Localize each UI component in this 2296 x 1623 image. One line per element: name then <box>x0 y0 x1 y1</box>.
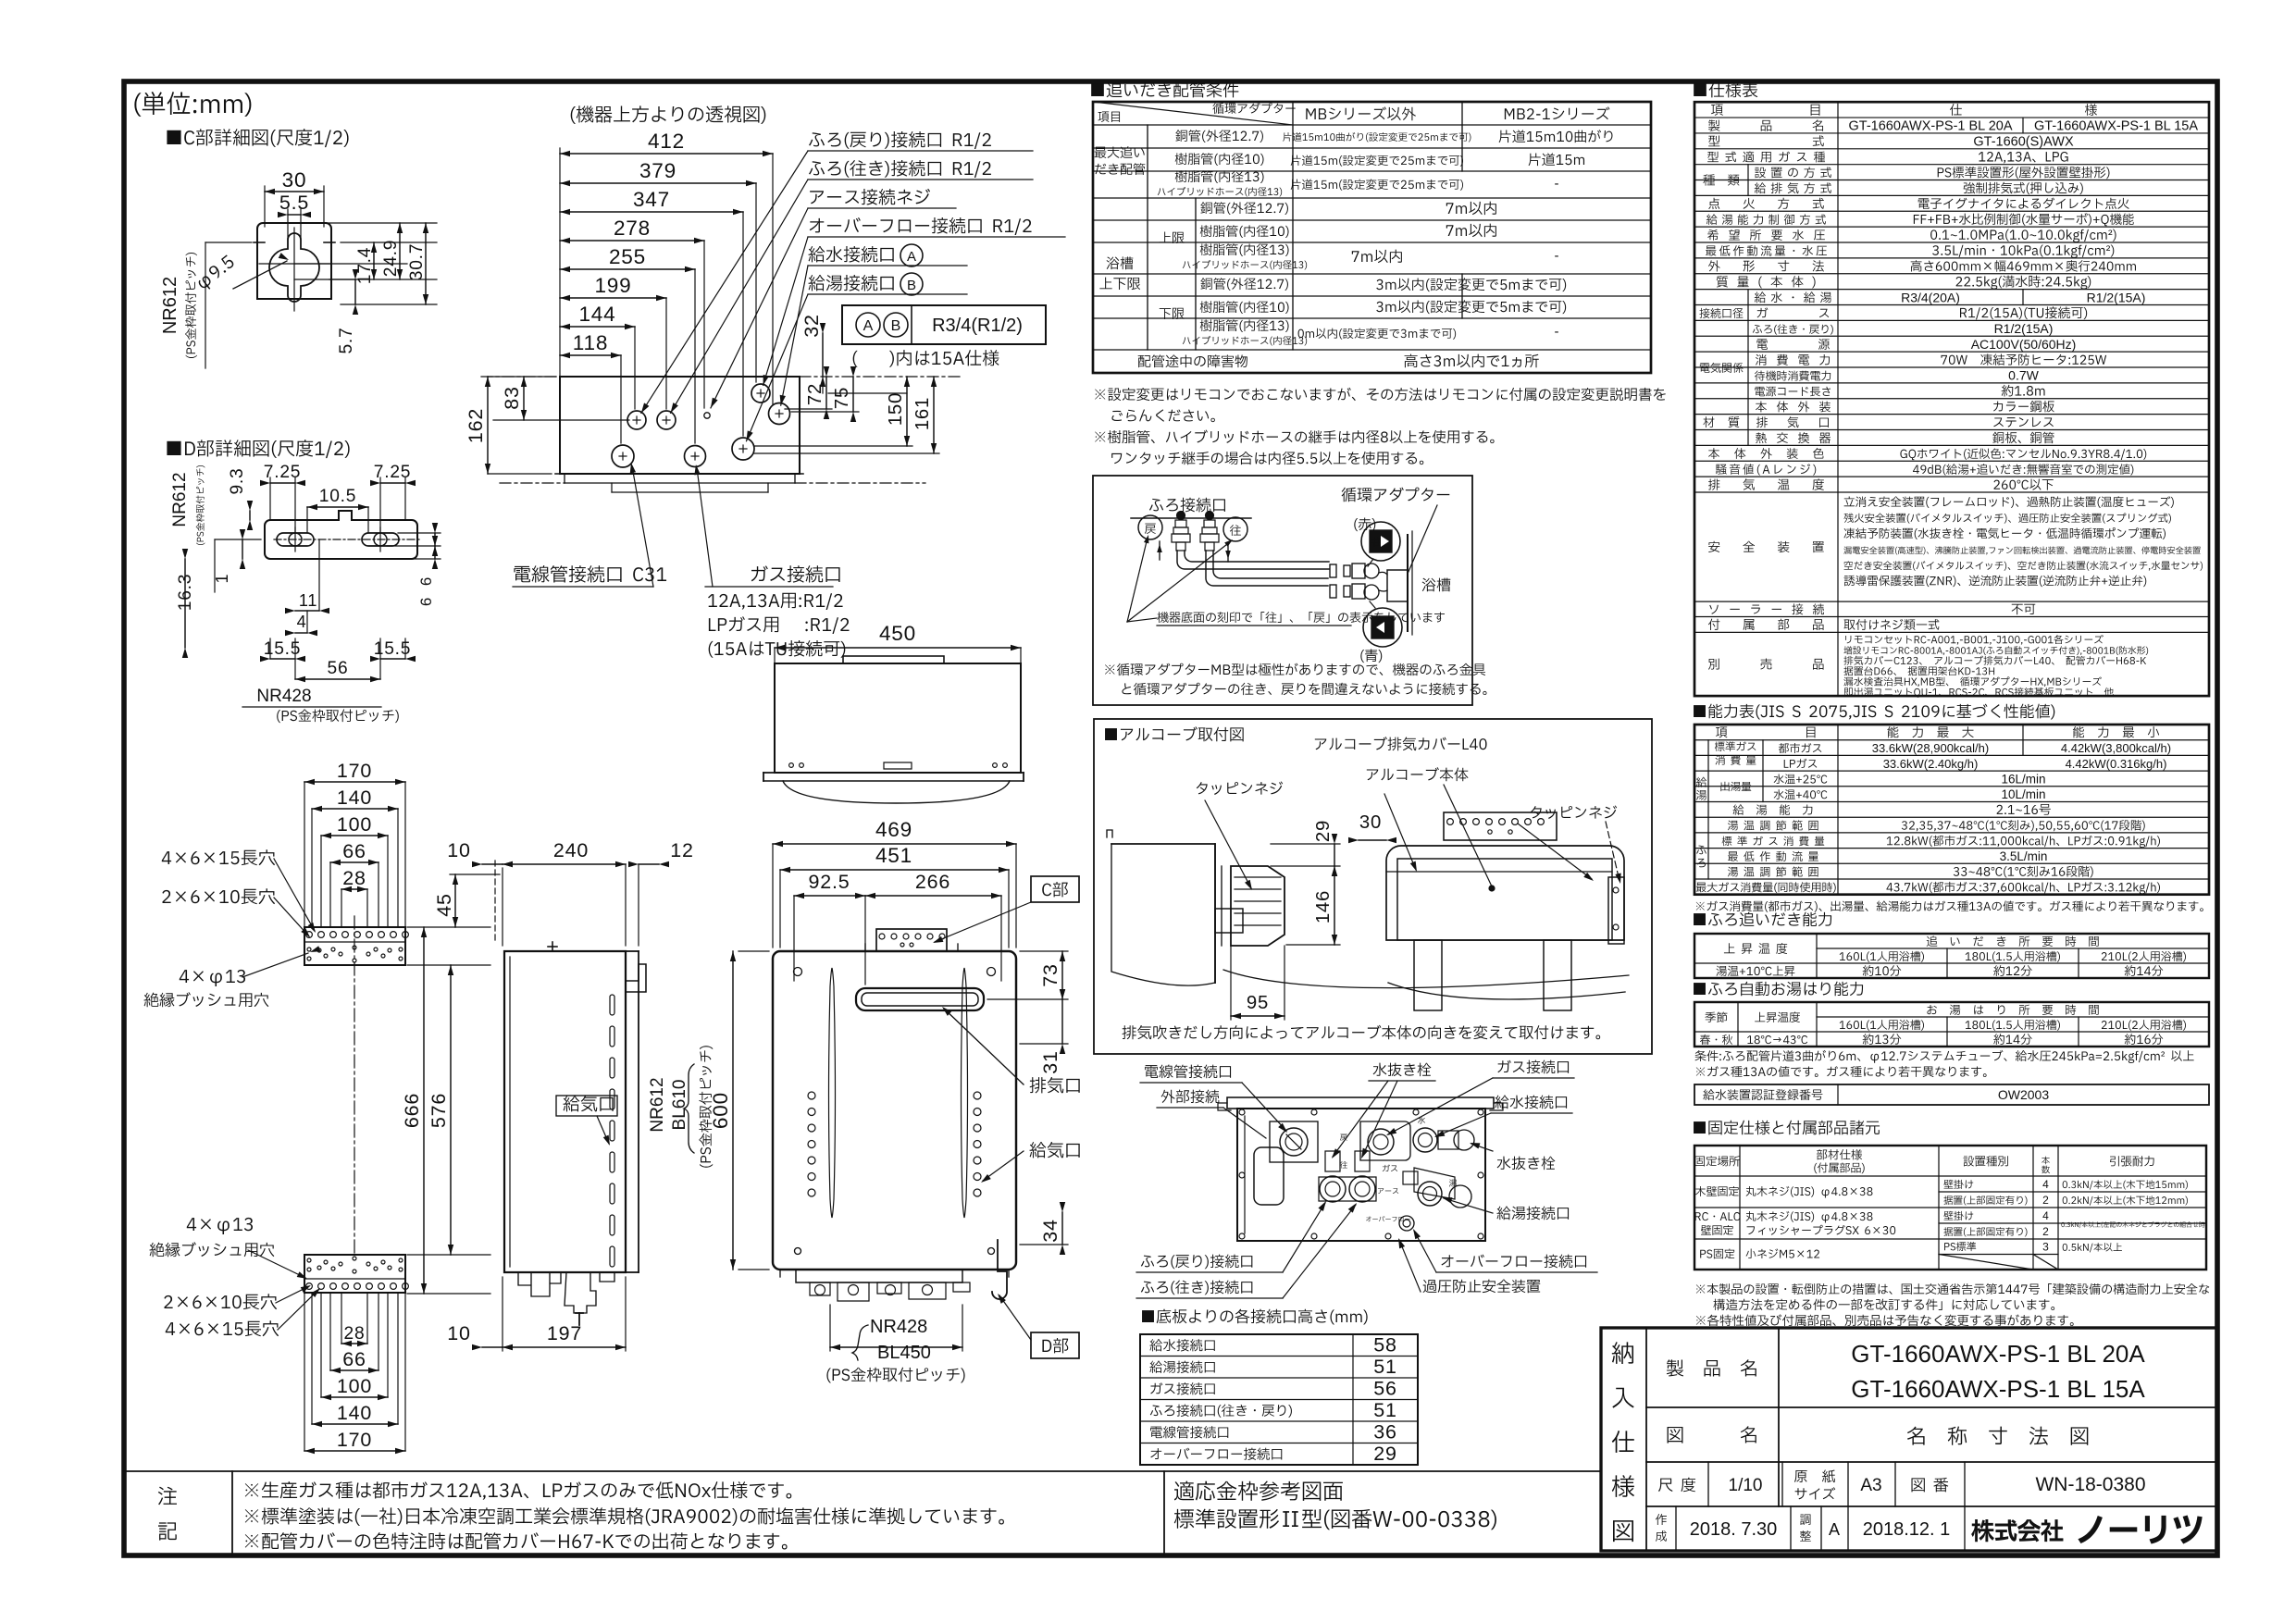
alcove figure box <box>1094 719 1652 1054</box>
spec table header <box>1711 105 1819 116</box>
front view curved highlights <box>829 968 836 1218</box>
svg-text:5.7: 5.7 <box>337 327 356 353</box>
front view air inlet label <box>1029 1142 1079 1158</box>
svg-text:4: 4 <box>297 613 307 631</box>
svg-text:2018. 7.30: 2018. 7.30 <box>1690 1519 1778 1540</box>
svg-text:33.6kW(28,900kcal/h): 33.6kW(28,900kcal/h) <box>1872 741 1989 755</box>
perspective connection holes <box>627 411 646 429</box>
svg-text:72: 72 <box>805 383 825 405</box>
svg-text:B: B <box>907 278 916 293</box>
front view exhaust slot <box>856 988 984 1010</box>
svg-text:170: 170 <box>337 1429 372 1451</box>
svg-text:51: 51 <box>1373 1356 1396 1378</box>
svg-text:GT-1660AWX-PS-1 BL 15A: GT-1660AWX-PS-1 BL 15A <box>2034 119 2198 134</box>
reference frame drawing note <box>1174 1481 1343 1501</box>
svg-text:9.3: 9.3 <box>228 467 247 494</box>
svg-text:NR612: NR612 <box>648 1077 667 1132</box>
svg-text:34: 34 <box>1039 1219 1061 1242</box>
center axis <box>354 916 355 1255</box>
svg-text:73: 73 <box>1039 963 1061 986</box>
svg-text:24.9: 24.9 <box>381 240 401 278</box>
svg-text:A3: A3 <box>1860 1476 1881 1495</box>
svg-text:NR428: NR428 <box>870 1317 927 1337</box>
svg-text:GT-1660(S)AWX: GT-1660(S)AWX <box>1973 135 2074 150</box>
svg-text:2: 2 <box>2042 1194 2049 1207</box>
circulation adapter figure box <box>1093 476 1472 705</box>
front view D-part label <box>1031 1332 1079 1358</box>
svg-text:2: 2 <box>2042 1225 2049 1238</box>
alcove bracket plate <box>1444 812 1557 840</box>
piping table row labels <box>1095 146 1145 158</box>
side view bracket tab <box>626 964 646 992</box>
title block date row <box>1675 1506 1677 1551</box>
spec rows <box>1708 119 1823 130</box>
lower plate labels <box>187 1218 253 1234</box>
piping table notes <box>1095 388 1666 401</box>
svg-text:3.5L/min: 3.5L/min <box>2000 849 2048 863</box>
alcove right body <box>1359 839 1386 841</box>
svg-text:10: 10 <box>447 1322 470 1344</box>
svg-text:GT-1660AWX-PS-1 BL 20A: GT-1660AWX-PS-1 BL 20A <box>1851 1340 2145 1368</box>
lower mounting plate <box>304 1255 405 1293</box>
reheat table grid <box>1694 934 2209 978</box>
svg-text:NR612: NR612 <box>160 277 180 334</box>
perspective bottom labels <box>514 565 666 583</box>
svg-text:66: 66 <box>342 1348 366 1370</box>
svg-text:144: 144 <box>578 303 615 326</box>
svg-text:2018.12. 1: 2018.12. 1 <box>1863 1519 1951 1540</box>
svg-text:450: 450 <box>879 622 916 645</box>
bottom view labels bottom-left <box>1141 1254 1252 1269</box>
bottom view small texts <box>1340 1134 1347 1140</box>
front view vent holes <box>808 1092 815 1099</box>
side view bottom dims <box>503 1346 626 1348</box>
svg-text:255: 255 <box>609 245 646 268</box>
alcove legs <box>1414 940 1442 1010</box>
svg-text:-: - <box>1555 248 1559 264</box>
title block scale row <box>1707 1462 1709 1506</box>
svg-text:17.4: 17.4 <box>355 247 375 285</box>
circulation adapter leader <box>1408 505 1437 574</box>
svg-text:30: 30 <box>282 168 307 192</box>
capacity table grid <box>1694 725 2209 895</box>
bottom view screws on body <box>1239 1109 1245 1115</box>
piping table diagonal header <box>1093 102 1293 125</box>
svg-text:379: 379 <box>639 159 676 182</box>
svg-text:666: 666 <box>401 1093 423 1128</box>
svg-text:10.5: 10.5 <box>319 487 357 506</box>
side view air inlet label <box>563 1096 613 1111</box>
fixing rows <box>1695 1186 1739 1196</box>
small top view <box>775 647 1021 649</box>
auto fill notes <box>1695 1050 2194 1063</box>
bottom view labels top <box>1373 1063 1432 1077</box>
detail view D title <box>167 440 349 458</box>
svg-text:140: 140 <box>337 1402 372 1424</box>
A B note box <box>842 305 1046 344</box>
svg-text:GT-1660AWX-PS-1 BL 20A: GT-1660AWX-PS-1 BL 20A <box>1848 119 2012 134</box>
connection heights table title <box>1142 1309 1368 1325</box>
svg-text:R3/4(R1/2): R3/4(R1/2) <box>932 316 1023 336</box>
perspective left dims <box>487 377 489 474</box>
svg-text:A: A <box>863 318 874 334</box>
piping conditions table title <box>1091 82 1238 98</box>
svg-text:R1/2(15A): R1/2(15A) <box>1994 321 2054 336</box>
perspective body <box>560 377 800 474</box>
circulation bath wall <box>1407 535 1409 631</box>
notes box <box>124 1470 1601 1472</box>
svg-text:451: 451 <box>875 844 912 867</box>
side view body <box>504 951 626 1272</box>
svg-text:30: 30 <box>1359 812 1382 833</box>
spec accessory row <box>1708 619 1824 630</box>
circulation red icon <box>1361 522 1400 561</box>
alcove caption <box>1123 1025 1601 1040</box>
circulation fitting rail <box>1131 517 1251 519</box>
svg-text:4: 4 <box>2042 1178 2049 1191</box>
upper plate hole labels <box>162 849 275 865</box>
auto fill table title <box>1694 982 1863 997</box>
svg-text:240: 240 <box>553 839 589 861</box>
svg-text:100: 100 <box>337 1375 372 1397</box>
perspective leader labels <box>809 131 991 149</box>
capacity rows <box>1696 777 1706 787</box>
svg-text:600: 600 <box>709 1092 732 1129</box>
svg-text:30.7: 30.7 <box>407 243 427 281</box>
bottom view gas inlet <box>1360 1121 1410 1160</box>
front view C-part label <box>1031 876 1079 902</box>
svg-text:6: 6 <box>417 597 435 606</box>
bottom view labels right <box>1497 1157 1556 1171</box>
svg-text:29: 29 <box>1373 1443 1396 1465</box>
bottom view body <box>1237 1109 1485 1241</box>
svg-text:WN-18-0380: WN-18-0380 <box>2035 1474 2145 1495</box>
front view dim 600 <box>732 951 734 1270</box>
side view flange <box>626 950 639 952</box>
spec table grid <box>1694 102 2209 696</box>
detail view D slots <box>277 533 314 546</box>
svg-text:150: 150 <box>886 392 906 426</box>
circulation pipes <box>1177 551 1329 569</box>
svg-text:83: 83 <box>501 386 523 409</box>
svg-text:NR612: NR612 <box>170 472 190 527</box>
circulation bottom note <box>1157 612 1445 623</box>
svg-text:36: 36 <box>1373 1420 1396 1443</box>
title block left column text <box>1612 1342 1633 1364</box>
svg-text:R3/4(20A): R3/4(20A) <box>1901 290 1960 304</box>
side view louver slots <box>610 995 614 1015</box>
svg-text:146: 146 <box>1313 890 1334 923</box>
bottom view top plate <box>1227 1097 1494 1109</box>
svg-text:A: A <box>1829 1520 1840 1539</box>
bottom view conduit <box>1270 1121 1318 1162</box>
lower plate dim stack <box>341 1343 367 1344</box>
circulation MB note <box>1105 663 1485 676</box>
svg-text:28: 28 <box>342 867 366 889</box>
detail view C right dims <box>341 242 437 243</box>
svg-text:197: 197 <box>547 1322 582 1344</box>
alcove left wall <box>1111 844 1215 983</box>
svg-text:92.5: 92.5 <box>809 871 850 893</box>
title block rows <box>1646 1406 2217 1408</box>
alcove cover <box>1231 866 1285 946</box>
svg-text:B: B <box>891 318 901 334</box>
svg-text:162: 162 <box>465 408 487 443</box>
svg-text:469: 469 <box>875 818 912 841</box>
svg-text:32: 32 <box>800 314 823 337</box>
spec table title <box>1694 82 1757 98</box>
svg-text:58: 58 <box>1373 1333 1396 1356</box>
spec solar row <box>1709 603 1824 614</box>
svg-text:100: 100 <box>337 813 372 836</box>
svg-text:6: 6 <box>417 576 435 586</box>
perspective view title <box>571 105 766 124</box>
svg-text:278: 278 <box>614 217 651 240</box>
front view screws <box>794 968 802 976</box>
detail view D bracket outline <box>265 511 417 559</box>
svg-text:10: 10 <box>447 839 470 861</box>
svg-text:28: 28 <box>344 1324 366 1344</box>
front view bottom assembly <box>779 1270 781 1277</box>
svg-text:576: 576 <box>428 1093 450 1128</box>
svg-text:161: 161 <box>912 397 933 430</box>
svg-text:R1/2(15A): R1/2(15A) <box>2087 290 2146 304</box>
side view bottom pipes <box>518 1272 561 1296</box>
svg-text:199: 199 <box>594 274 631 297</box>
front view body <box>773 951 1016 1270</box>
svg-text:3: 3 <box>2042 1240 2049 1253</box>
circulation pipe end fittings <box>1330 564 1336 577</box>
vertical dims 666 576 <box>423 927 425 1294</box>
svg-text:56: 56 <box>328 659 349 678</box>
svg-text:10L/min: 10L/min <box>2001 787 2045 801</box>
title block frame <box>1601 1328 2217 1551</box>
svg-text:12: 12 <box>670 839 693 861</box>
svg-text:BL610: BL610 <box>670 1080 689 1131</box>
piping conditions table grid <box>1093 102 1651 373</box>
svg-text:OW2003: OW2003 <box>1998 1087 2049 1102</box>
detail view D lower dims <box>295 610 319 612</box>
svg-text:BL450: BL450 <box>877 1343 931 1363</box>
svg-text:0.7W: 0.7W <box>2008 368 2039 383</box>
unit note <box>134 92 251 117</box>
svg-text:75: 75 <box>832 387 852 409</box>
detail view C title <box>167 129 348 147</box>
capacity table title <box>1694 704 2054 720</box>
reheat time table title <box>1694 912 1831 927</box>
detail view D dimensions <box>270 482 295 484</box>
alcove left dims <box>1334 844 1335 866</box>
company logo <box>1971 1519 2063 1542</box>
svg-text:412: 412 <box>648 130 685 153</box>
perspective dim stack <box>560 153 773 155</box>
alcove right screws leaders <box>1518 824 1592 879</box>
svg-text:56: 56 <box>1373 1377 1396 1399</box>
svg-text:66: 66 <box>342 840 366 862</box>
svg-text:31: 31 <box>1039 1050 1061 1073</box>
spec optional row <box>1708 658 1823 669</box>
svg-text:1: 1 <box>213 574 231 584</box>
svg-text:170: 170 <box>337 760 372 782</box>
svg-text:4: 4 <box>2042 1209 2049 1222</box>
svg-text:45: 45 <box>433 893 455 916</box>
svg-text:GT-1660AWX-PS-1 BL 15A: GT-1660AWX-PS-1 BL 15A <box>1851 1375 2145 1403</box>
fixing table grid <box>1694 1146 2206 1270</box>
svg-text:11: 11 <box>299 591 317 610</box>
certification row <box>1694 1084 2209 1105</box>
circulation figure labels <box>1149 498 1225 513</box>
A B circles <box>900 244 923 266</box>
svg-text:266: 266 <box>915 871 950 893</box>
svg-text:4.42kW(0.316kg/h): 4.42kW(0.316kg/h) <box>2066 757 2167 771</box>
svg-text:A: A <box>907 249 916 265</box>
side view top mark <box>552 942 553 951</box>
circulation figure fittings <box>1177 512 1185 520</box>
svg-text:51: 51 <box>1373 1399 1396 1421</box>
bottom view bath conns <box>1325 1151 1340 1171</box>
circulation blue icon <box>1363 608 1402 647</box>
svg-text:347: 347 <box>633 188 670 211</box>
svg-text:33.6kW(2.40kg/h): 33.6kW(2.40kg/h) <box>1883 757 1979 771</box>
svg-text:5.5: 5.5 <box>279 192 309 214</box>
bottom view labels left <box>1145 1064 1231 1078</box>
side view dims 10 240 12 <box>494 861 496 942</box>
svg-text:95: 95 <box>1247 993 1269 1013</box>
spec safety row <box>1708 541 1824 552</box>
svg-text:29: 29 <box>1313 820 1334 842</box>
detail view C dimensions <box>265 191 324 192</box>
capacity note <box>1696 900 2203 911</box>
front view right dims <box>1061 951 1063 999</box>
fixing table title <box>1694 1121 1880 1135</box>
upper mounting plate <box>304 927 405 965</box>
piping table values <box>1283 132 1471 142</box>
svg-text:NR428: NR428 <box>256 687 311 706</box>
front view overflow pipe <box>992 1240 1007 1299</box>
svg-text:-: - <box>1555 324 1559 340</box>
upper plate dim stack <box>304 781 405 783</box>
connection heights table <box>1140 1334 1418 1465</box>
circulation modotari circles <box>1138 515 1162 539</box>
auto fill table grid <box>1694 1002 2209 1047</box>
alcove labels <box>1315 737 1487 750</box>
svg-text:140: 140 <box>337 787 372 809</box>
fixing notes <box>1696 1283 2209 1295</box>
svg-text:118: 118 <box>573 331 608 354</box>
detail view C bracket outline <box>257 223 331 299</box>
svg-text:16L/min: 16L/min <box>2001 772 2045 786</box>
svg-text:4.42kW(3,800kcal/h): 4.42kW(3,800kcal/h) <box>2061 741 2171 755</box>
svg-text:-: - <box>1555 176 1559 192</box>
svg-text:AC100V(50/60Hz): AC100V(50/60Hz) <box>1971 337 2077 352</box>
front view exhaust label <box>1030 1077 1080 1093</box>
svg-text:1/10: 1/10 <box>1729 1476 1763 1495</box>
front view dims top <box>773 843 1016 845</box>
bottom view water conns <box>1413 1128 1437 1152</box>
front view top bracket <box>876 929 947 951</box>
